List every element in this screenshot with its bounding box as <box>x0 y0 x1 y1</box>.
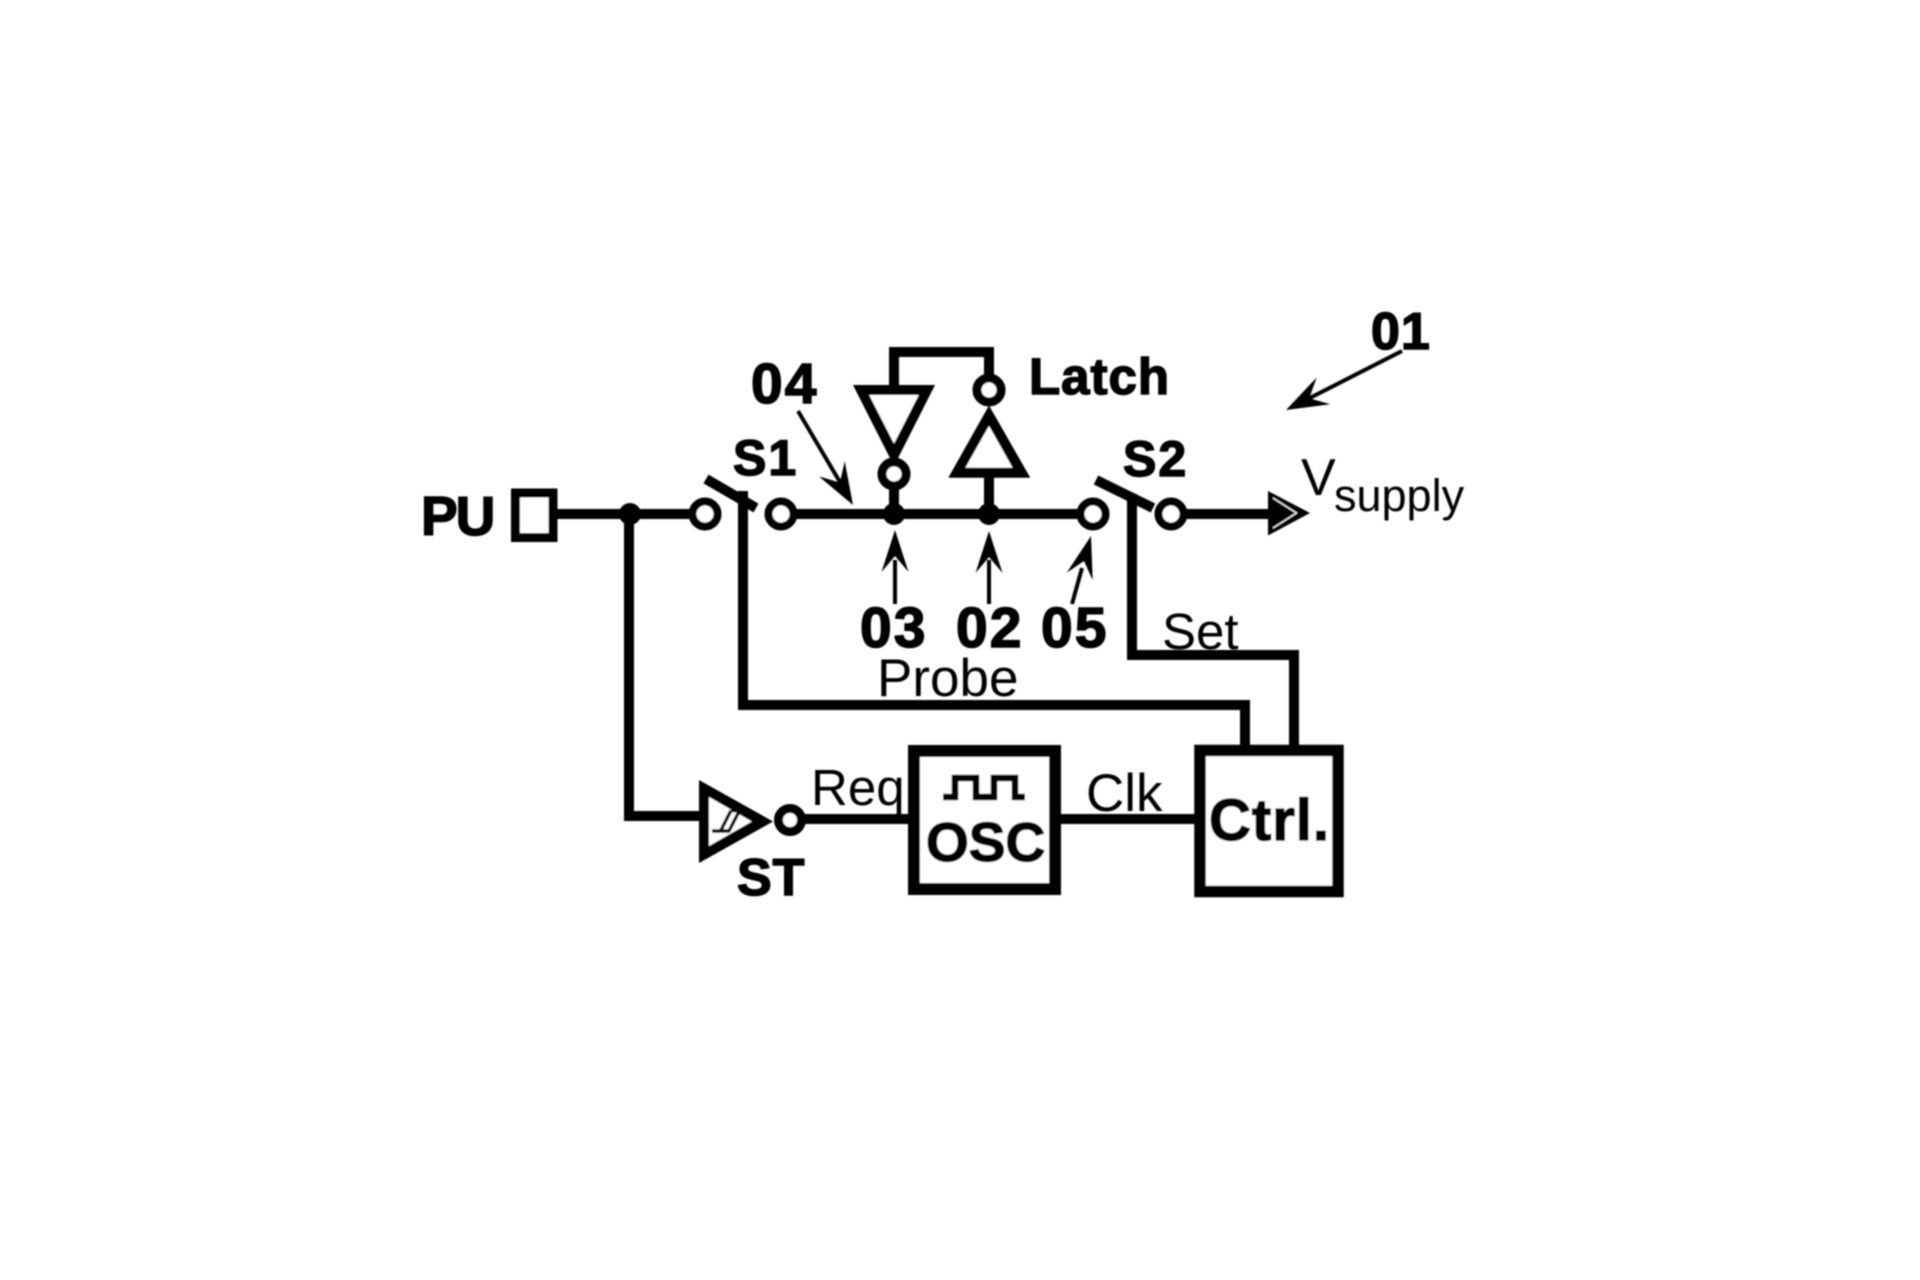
svg-text:supply: supply <box>1334 470 1465 521</box>
svg-text:Set: Set <box>1162 603 1239 660</box>
svg-text:S2: S2 <box>1123 431 1188 487</box>
svg-text:V: V <box>1301 449 1336 507</box>
svg-text:S1: S1 <box>733 430 798 486</box>
svg-text:Clk: Clk <box>1086 764 1163 823</box>
svg-text:Req: Req <box>811 759 905 816</box>
svg-text:PU: PU <box>421 485 493 547</box>
svg-text:Ctrl.: Ctrl. <box>1209 788 1330 853</box>
svg-text:Probe: Probe <box>877 649 1018 708</box>
svg-text:OSC: OSC <box>926 811 1045 873</box>
svg-text:05: 05 <box>1041 596 1108 660</box>
svg-text:Latch: Latch <box>1029 348 1170 405</box>
svg-text:04: 04 <box>751 352 818 416</box>
svg-text:01: 01 <box>1371 303 1431 361</box>
svg-text:ST: ST <box>737 849 805 907</box>
